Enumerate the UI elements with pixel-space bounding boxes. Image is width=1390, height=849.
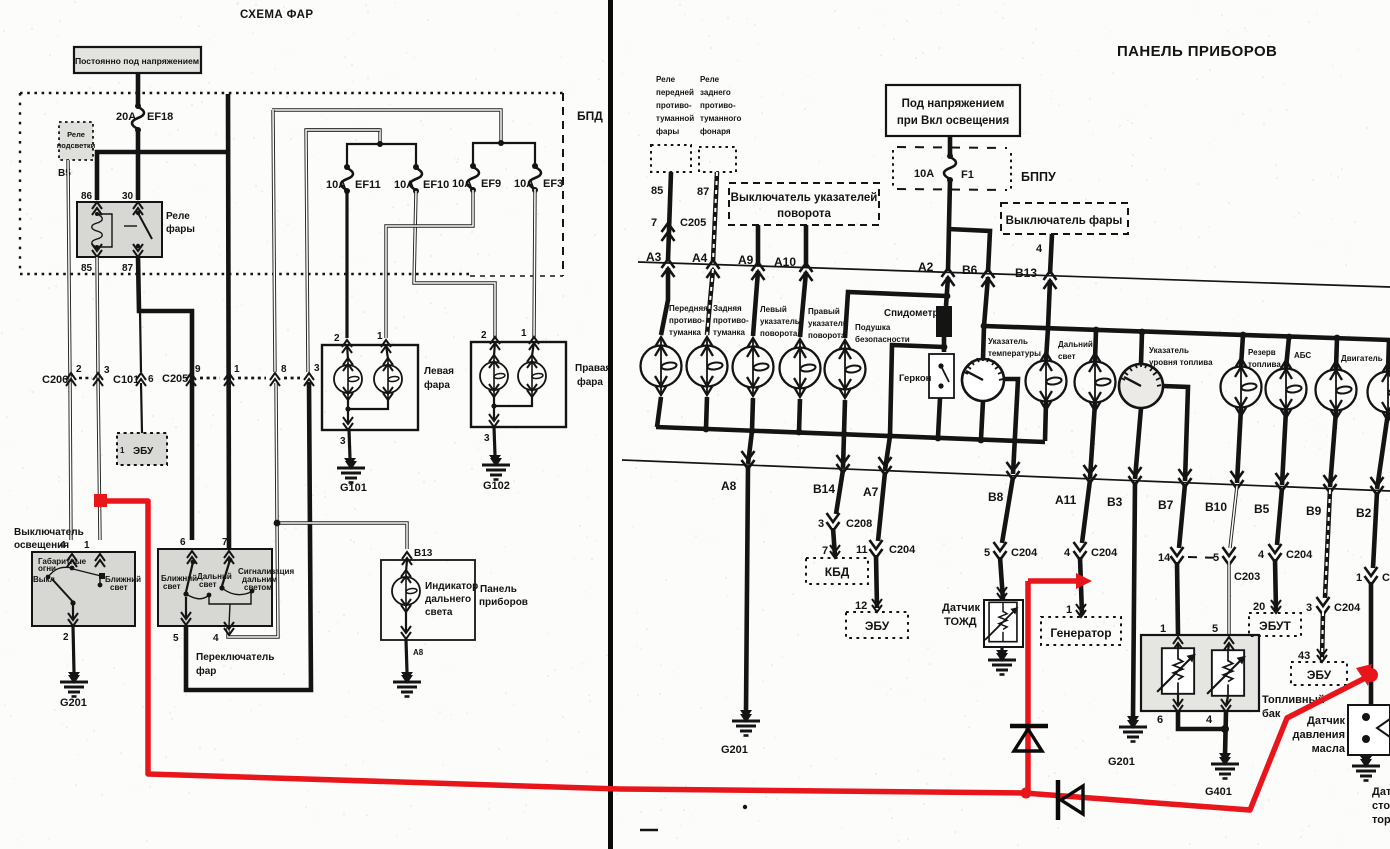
svg-text:Выключатель указателей: Выключатель указателей — [731, 192, 878, 204]
wire B8 to C204 — [1002, 477, 1013, 543]
svg-text:C205: C205 — [680, 217, 706, 229]
svg-text:ТОЖД: ТОЖД — [944, 616, 977, 628]
svg-text:4: 4 — [1206, 714, 1213, 726]
svg-text:2: 2 — [76, 364, 82, 375]
svg-text:Передняя: Передняя — [669, 304, 708, 313]
left headlamp box Левая фара — [322, 345, 418, 430]
svg-text:противо-: противо- — [669, 316, 705, 325]
svg-text:2: 2 — [334, 333, 340, 344]
ground G102 — [489, 455, 501, 463]
svg-text:давления: давления — [1292, 729, 1345, 741]
node: Под напряжением box — [886, 85, 1020, 136]
svg-text:ЭБУ: ЭБУ — [133, 446, 154, 457]
wire flash feed: EF bus to C205 pin3 (thin above row) — [306, 130, 380, 372]
node: Постоянно под напряжением box — [74, 47, 201, 73]
wire B7 to fuel sender — [1179, 484, 1185, 548]
node red start — [94, 495, 106, 507]
svg-text:10А: 10А — [394, 179, 414, 191]
svg-text:5: 5 — [1213, 552, 1219, 564]
svg-text:Подушка: Подушка — [855, 323, 891, 332]
svg-text:Реле: Реле — [67, 130, 85, 139]
svg-text:Реле: Реле — [700, 75, 720, 84]
svg-text:Правая: Правая — [575, 363, 611, 374]
fuel reserve rheostat — [1228, 644, 1229, 651]
wire fuel gauge to B3 — [1135, 408, 1141, 479]
svg-text:1: 1 — [521, 328, 527, 339]
wire supply to fuse EF18 — [136, 73, 141, 106]
wire A10 to right turn lamp — [800, 272, 806, 337]
svg-text:Спидометр: Спидометр — [884, 308, 938, 319]
wire fuse to A2 — [948, 180, 950, 271]
connector line upper (instrument panel edge) — [638, 262, 1390, 287]
svg-text:20: 20 — [1253, 601, 1265, 613]
svg-text:4: 4 — [1064, 547, 1071, 559]
svg-text:свет: свет — [163, 582, 181, 591]
fuel tank box Топливный бак — [1141, 635, 1259, 711]
node red end dot — [1364, 668, 1378, 682]
svg-text:приборов: приборов — [479, 596, 528, 608]
svg-text:свет: свет — [199, 580, 217, 589]
wire C205 pin8 to indicator B13 — [277, 523, 407, 549]
svg-text:7: 7 — [222, 537, 228, 548]
wire B13 to high beam lamp — [1046, 280, 1050, 360]
svg-text:Панель: Панель — [480, 584, 517, 595]
rear fog relay dashed box — [699, 147, 736, 172]
svg-text:туманного: туманного — [700, 114, 742, 123]
fusebox dashed border БПД — [20, 93, 563, 276]
wire reed to bottom bus — [938, 398, 940, 437]
svg-text:фары: фары — [166, 223, 195, 235]
wire A9 from turn switch — [756, 225, 761, 266]
fuse EF9 10A — [467, 163, 479, 193]
lamp high beam — [1026, 352, 1067, 410]
connector C203 dashes — [1188, 557, 1222, 558]
svg-text:4: 4 — [1036, 243, 1043, 255]
reed switch Геркон box — [929, 354, 954, 398]
ground bus lower — [656, 427, 1045, 442]
wire red branch vertical — [1025, 581, 1031, 794]
svg-text:EF18: EF18 — [147, 111, 173, 123]
wire B6 to temp gauge — [983, 277, 988, 359]
speed sensor black rect — [936, 306, 952, 337]
svg-text:Выключатель фары: Выключатель фары — [1006, 215, 1123, 227]
wire vertical x228 from top border to pin7 — [228, 94, 229, 548]
svg-text:Правый: Правый — [808, 307, 840, 316]
wire B9 striped to C204 to ЭБУ — [1325, 490, 1330, 598]
svg-text:2: 2 — [63, 632, 69, 643]
svg-text:12: 12 — [855, 600, 867, 612]
wire C205 pin8 branch down to dimmer pin4 — [228, 523, 278, 637]
wire speedometer out to B8 — [1004, 379, 1018, 474]
front fog relay dashed box — [651, 145, 691, 172]
svg-text:фонаря: фонаря — [700, 127, 731, 136]
oil pressure sensor box — [1348, 705, 1390, 755]
ЭБУ dashed box U2 — [117, 433, 167, 465]
node red arrow at generator wire — [1076, 573, 1092, 589]
wire branch to C101 pin6 and ЭБУ — [140, 311, 141, 372]
diode D1 on vertical red wire — [1010, 726, 1048, 751]
svg-text:3: 3 — [314, 363, 320, 374]
svg-text:EF3: EF3 — [543, 178, 563, 190]
ground ТОЖД — [1000, 647, 1003, 652]
svg-text:4: 4 — [1258, 549, 1265, 561]
svg-text:A2: A2 — [918, 260, 934, 274]
svg-text:1: 1 — [1160, 623, 1166, 635]
lamp high beam right — [532, 342, 534, 356]
lamp rear fog — [687, 337, 728, 395]
svg-text:4: 4 — [60, 540, 66, 551]
svg-text:Указатель: Указатель — [988, 337, 1028, 346]
svg-text:85: 85 — [81, 263, 93, 274]
svg-text:ЭБУ: ЭБУ — [865, 619, 890, 633]
bus drop to B14 — [843, 434, 844, 468]
right headlamp box Правая фара — [471, 342, 566, 427]
svg-text:10А: 10А — [452, 178, 472, 190]
svg-text:C204: C204 — [1286, 549, 1313, 561]
svg-text:поворота: поворота — [777, 208, 831, 220]
svg-text:G201: G201 — [721, 744, 748, 756]
wire high beam lamp to bus end — [1045, 402, 1046, 441]
svg-text:при Вкл освещения: при Вкл освещения — [897, 115, 1009, 127]
svg-text:3: 3 — [104, 365, 110, 376]
wire box to fuse F1 — [948, 136, 953, 154]
svg-text:противо-: противо- — [713, 316, 749, 325]
svg-text:бак: бак — [1262, 708, 1281, 720]
wire relay86 feed: up right and tall vertical to headlamp switch pin7 — [97, 152, 228, 200]
wire B13 from switch — [1050, 234, 1052, 274]
svg-text:фары: фары — [656, 127, 679, 136]
fuel level rheostat — [1177, 644, 1179, 649]
wire sensor to ground-bus drop — [890, 345, 944, 436]
wire B5 down to C206 pin2 — [68, 160, 71, 540]
svg-text:указатель: указатель — [808, 319, 848, 328]
svg-text:стоя: стоя — [1372, 800, 1390, 812]
svg-text:8: 8 — [281, 364, 287, 375]
svg-text:2: 2 — [481, 330, 487, 341]
svg-text:светом: светом — [244, 583, 272, 592]
svg-text:БПД: БПД — [577, 109, 603, 123]
svg-text:масла: масла — [1312, 743, 1346, 755]
wire A11 to C204 to generator — [1082, 480, 1090, 543]
svg-text:СХЕМА ФАР: СХЕМА ФАР — [240, 9, 313, 21]
generator dashed box — [1076, 604, 1086, 617]
ground G201 left — [68, 672, 80, 680]
wire A9 to left turn lamp — [753, 271, 758, 336]
coolant sensor Датчик ТОЖД box — [997, 587, 1007, 600]
svg-text:туманка: туманка — [713, 328, 746, 337]
svg-text:A11: A11 — [1055, 493, 1077, 507]
wire red branch to generator — [1028, 578, 1078, 584]
svg-text:B8: B8 — [988, 490, 1004, 504]
svg-text:топлива: топлива — [1248, 360, 1281, 369]
fuse EF18 20A — [132, 103, 144, 133]
svg-text:Реле: Реле — [166, 211, 190, 222]
PLACEHOLDER-RIGHT2 — [94, 494, 1378, 820]
ЭБУТ dashed box — [1271, 600, 1281, 613]
fuse EF11 10A — [341, 164, 353, 194]
svg-text:Реле: Реле — [656, 75, 676, 84]
svg-text:G101: G101 — [340, 482, 367, 494]
diode D2 on horizontal red wire — [1058, 780, 1083, 820]
svg-text:B3: B3 — [1107, 495, 1123, 509]
svg-text:F1: F1 — [961, 169, 974, 181]
fuse bus wire EF11-EF10 tops — [306, 130, 380, 144]
svg-text:туманной: туманной — [656, 114, 694, 123]
svg-text:G201: G201 — [1108, 756, 1135, 768]
relay coil relay подсветки dashed box — [59, 122, 93, 160]
svg-text:C203: C203 — [1234, 571, 1260, 583]
svg-text:5: 5 — [1212, 623, 1218, 635]
lamp oil pressure (edge) — [1368, 363, 1390, 421]
svg-text:3: 3 — [484, 433, 490, 444]
svg-text:10А: 10А — [326, 179, 346, 191]
svg-text:1: 1 — [120, 446, 125, 455]
svg-text:C101: C101 — [113, 374, 139, 386]
bus drop to A7 — [885, 436, 890, 470]
wire EF11 to left headlamp pin2 — [345, 191, 348, 338]
wire under sensor — [942, 337, 947, 352]
wire A2 down to speed sensor — [946, 277, 948, 306]
svg-text:C205: C205 — [162, 373, 188, 385]
svg-text:свет: свет — [110, 583, 128, 592]
svg-text:C206: C206 — [42, 374, 68, 386]
svg-text:G201: G201 — [60, 697, 87, 709]
svg-text:6: 6 — [148, 374, 154, 385]
relay coil — [95, 212, 99, 216]
svg-text:3: 3 — [818, 518, 824, 530]
svg-text:КБД: КБД — [825, 565, 850, 579]
svg-text:5: 5 — [984, 547, 990, 559]
wire A3 to front fog lamp — [661, 268, 668, 335]
svg-text:B13: B13 — [414, 548, 433, 559]
svg-text:ПАНЕЛЬ ПРИБОРОВ: ПАНЕЛЬ ПРИБОРОВ — [1117, 43, 1277, 60]
svg-text:тор: тор — [1372, 814, 1390, 826]
lamp left turn — [733, 338, 774, 396]
svg-text:6: 6 — [180, 537, 186, 548]
svg-text:7: 7 — [822, 545, 828, 557]
svg-text:14: 14 — [1158, 552, 1171, 564]
wire B10 thin to fuel sender pin5 — [1230, 486, 1237, 548]
svg-text:EF11: EF11 — [355, 179, 381, 191]
headlamp switch dashed box — [1001, 203, 1128, 234]
svg-text:EF10: EF10 — [423, 179, 449, 191]
svg-text:фара: фара — [577, 376, 603, 388]
svg-text:1: 1 — [377, 331, 383, 342]
svg-text:температуры: температуры — [988, 349, 1041, 358]
svg-text:дальнего: дальнего — [425, 594, 471, 605]
svg-text:подсветки: подсветки — [57, 141, 96, 150]
svg-text:1: 1 — [1066, 604, 1072, 616]
svg-text:43: 43 — [1298, 650, 1310, 662]
svg-text:Дат: Дат — [1372, 786, 1390, 798]
wire A7 to C204 — [878, 472, 885, 541]
wire branch B6 — [948, 229, 990, 272]
svg-text:87: 87 — [122, 263, 134, 274]
svg-text:фара: фара — [424, 379, 450, 391]
svg-text:фар: фар — [196, 665, 216, 677]
svg-text:B14: B14 — [813, 482, 835, 496]
fuse bus wire EF9-EF3 tops — [272, 110, 501, 143]
svg-text:безопасности: безопасности — [855, 335, 910, 344]
page divider — [608, 0, 613, 849]
connector line lower — [622, 460, 1390, 491]
wire fuel sender to ground G401 — [1178, 712, 1226, 755]
svg-text:противо-: противо- — [656, 101, 692, 110]
svg-text:10А: 10А — [914, 168, 934, 180]
wire B5 to C204 to ЭБУТ — [1277, 488, 1282, 545]
svg-text:Постоянно под напряжением: Постоянно под напряжением — [75, 56, 199, 66]
PLACEHOLDER-LEFT2 — [622, 43, 1390, 830]
ground G101 — [344, 458, 356, 466]
svg-text:B5: B5 — [1254, 502, 1270, 516]
svg-text:C204: C204 — [1334, 602, 1361, 614]
svg-text:4: 4 — [213, 633, 219, 644]
wire B14 to C208 — [836, 470, 843, 514]
svg-text:указатель: указатель — [760, 317, 800, 326]
fusebox БППУ dashed border — [893, 147, 1011, 190]
svg-text:7: 7 — [651, 217, 657, 229]
wire lamp bottoms join right — [494, 396, 532, 406]
svg-text:Индикатор: Индикатор — [425, 581, 478, 592]
lamp low beam left — [347, 345, 348, 359]
wire fuse EF18 to relay pin 30 — [136, 130, 141, 200]
connector C206 pin 3 — [93, 373, 103, 386]
svg-text:A7: A7 — [863, 485, 879, 499]
svg-text:передней: передней — [656, 88, 694, 97]
svg-text:B9: B9 — [1306, 504, 1322, 518]
svg-text:Дальний: Дальний — [1058, 340, 1093, 349]
svg-text:Геркон: Геркон — [899, 373, 932, 384]
svg-text:Под напряжением: Под напряжением — [902, 98, 1005, 110]
svg-text:9: 9 — [195, 364, 201, 375]
instrument feed bus upper — [984, 326, 1390, 340]
junction node — [274, 520, 281, 527]
svg-text:A4: A4 — [692, 251, 708, 265]
svg-text:C204: C204 — [1091, 547, 1118, 559]
wire EF3 to right headlamp pin1 — [534, 189, 535, 338]
wire A3 column: relay85 to C205-7 to line — [668, 172, 671, 260]
svg-text:B6: B6 — [962, 263, 978, 277]
svg-text:A3: A3 — [646, 250, 662, 264]
svg-text:1: 1 — [234, 364, 240, 375]
svg-text:A8: A8 — [413, 648, 424, 657]
svg-text:поворота: поворота — [808, 331, 846, 340]
wire A8 to ground — [746, 466, 748, 712]
lamp front fog — [641, 337, 682, 395]
high beam indicator box — [381, 560, 475, 640]
svg-text:6: 6 — [1157, 714, 1163, 726]
light switch box SW1 — [32, 552, 135, 626]
svg-text:C208: C208 — [846, 518, 872, 530]
pins 6 and 4 fuel sender — [1177, 694, 1179, 706]
svg-text:30: 30 — [122, 191, 134, 202]
svg-text:уровня топлива: уровня топлива — [1149, 358, 1213, 367]
bus drop to A8 — [748, 431, 752, 464]
svg-text:Датчик: Датчик — [942, 602, 980, 614]
stray mark dot — [743, 805, 747, 809]
svg-text:Двигатель: Двигатель — [1341, 354, 1383, 363]
svg-text:G401: G401 — [1205, 786, 1232, 798]
turn signal switch dashed box — [729, 183, 879, 225]
wire EF10 to right headlamp pin2 — [414, 191, 495, 338]
wire high beam: C205 pin8 vertical — [273, 110, 275, 372]
svg-text:Задняя: Задняя — [713, 304, 742, 313]
wire relay 87 jog to C205 pin9 to dimmer pin6 — [138, 257, 192, 540]
svg-text:Резерв: Резерв — [1248, 348, 1276, 357]
svg-text:Левый: Левый — [760, 305, 787, 314]
ЭБУ dashed box right — [872, 599, 882, 612]
connector C205 pin 8 — [270, 373, 280, 386]
svg-text:1: 1 — [84, 540, 90, 551]
svg-text:A8: A8 — [721, 479, 737, 493]
svg-text:5: 5 — [173, 633, 179, 644]
svg-text:3: 3 — [340, 436, 346, 447]
lamp airbag — [825, 340, 866, 398]
wire lamp to A11 — [1090, 403, 1095, 478]
relay switch contact — [136, 211, 140, 215]
wire fuel gauge right to B7 — [1163, 386, 1188, 481]
wire A2 branch left to airbag lamp — [845, 292, 947, 338]
svg-text:B2: B2 — [1356, 506, 1372, 520]
svg-text:A10: A10 — [774, 255, 796, 269]
svg-text:3: 3 — [1306, 602, 1312, 614]
svg-text:A9: A9 — [738, 253, 754, 267]
svg-text:B13: B13 — [1015, 266, 1037, 280]
svg-text:C204: C204 — [889, 544, 916, 556]
svg-text:противо-: противо- — [700, 101, 736, 110]
lamp low beam right — [494, 342, 495, 356]
wire lamp bottoms join — [349, 399, 388, 409]
svg-text:АБС: АБС — [1294, 351, 1311, 360]
svg-text:Выключатель: Выключатель — [14, 527, 84, 538]
wires lamps to ground bus — [657, 397, 661, 427]
wire C205 pin3 thick down to dimmer pin5 loop — [186, 382, 311, 690]
lamp right turn — [780, 339, 821, 397]
svg-text:B7: B7 — [1158, 498, 1174, 512]
svg-text:B10: B10 — [1205, 500, 1227, 514]
fuse EF3 10A — [529, 163, 541, 193]
svg-text:EF9: EF9 — [481, 178, 501, 190]
fuse EF10 10A — [410, 164, 422, 194]
node red junction — [1021, 788, 1032, 799]
connector C205 pin 1 — [224, 373, 234, 386]
svg-text:ЭБУТ: ЭБУТ — [1259, 619, 1291, 633]
svg-text:заднего: заднего — [700, 88, 731, 97]
lamp ABS — [1266, 360, 1307, 418]
temp gauge — [962, 357, 1004, 401]
svg-text:света: света — [425, 607, 453, 618]
connector C205 pin 3 — [304, 373, 314, 386]
svg-text:1: 1 — [1356, 572, 1362, 584]
КБД dashed box — [830, 545, 840, 558]
wire A10 from turn switch — [804, 225, 809, 268]
wire A4 column striped: relay87 to line — [713, 172, 717, 262]
svg-text:20А: 20А — [116, 111, 136, 123]
svg-text:11: 11 — [856, 544, 868, 556]
svg-text:БППУ: БППУ — [1021, 170, 1056, 184]
svg-text:86: 86 — [81, 191, 93, 202]
svg-text:C2: C2 — [1382, 572, 1390, 584]
svg-text:85: 85 — [651, 185, 663, 197]
lamp instrument illumination — [1075, 353, 1116, 411]
wire EF9 to left headlamp pin1 — [386, 190, 473, 338]
svg-text:туманка: туманка — [669, 328, 702, 337]
svg-text:C204: C204 — [1011, 547, 1038, 559]
ground indicator — [401, 672, 413, 680]
lamp engine — [1316, 361, 1357, 419]
wire B2 to C2.. — [1373, 492, 1377, 568]
ground oil sensor — [1364, 755, 1367, 757]
